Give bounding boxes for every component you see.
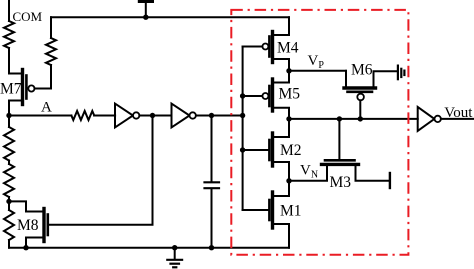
node gate bus input junction [240, 113, 245, 118]
inverter U2 [172, 104, 196, 128]
wire gate bus [242, 47, 244, 211]
wire M3 gate lead [338, 119, 340, 159]
wire M2 gate lead [243, 149, 269, 151]
transistor M7 channel [21, 70, 24, 105]
transistor M2 channel [271, 133, 274, 166]
wire Vout [441, 118, 474, 120]
wire M4 gate lead [243, 46, 263, 48]
node M8 drain junction [6, 199, 11, 204]
wire M7 gate to R2 [35, 65, 52, 89]
wire inverter U1 out to inverter U2 [139, 115, 171, 117]
wire M7 drain lead [9, 48, 23, 74]
svg-text:A: A [41, 100, 52, 116]
node ground junction [172, 245, 177, 250]
node M8 source junction [23, 245, 28, 250]
transistor M4 gate bubble [262, 44, 268, 50]
wire capacitor branch top [211, 116, 213, 182]
wire M8 source lead [26, 238, 44, 248]
ground [167, 248, 182, 268]
wire M6 right lead to ground [374, 71, 397, 87]
inverter U1 [115, 104, 139, 128]
svg-text:M7: M7 [0, 81, 22, 98]
svg-text:M3: M3 [330, 174, 352, 191]
wire R3 to inverter U1 [94, 115, 115, 117]
wire node VP to M6 [289, 70, 346, 72]
wire node A to R3 [9, 115, 71, 117]
wire R2 top to rail [50, 17, 52, 38]
terminal bar (M3 bulk) [389, 173, 391, 188]
resistor (bottom left to ground rail) [4, 201, 14, 247]
red dashed analysis box [231, 10, 408, 255]
transistor M6 channel [344, 86, 376, 89]
wire M1 source to ground rail [273, 224, 290, 248]
transistor M6 gate bubble [357, 94, 364, 101]
node COM input wire [8, 0, 10, 21]
node A junction [6, 113, 11, 118]
transistor M6 gate bar [348, 91, 373, 94]
transistor M3 gate bar [325, 159, 355, 162]
svg-text:M4: M4 [277, 40, 299, 57]
wire M2 source to output line [273, 119, 290, 137]
inverter U3 (output) [418, 107, 441, 131]
transistor M4 channel [271, 32, 274, 63]
wire M7 source lead to node A [9, 101, 23, 116]
transistor M7 gate bubble [28, 85, 34, 91]
power supply symbol [138, 0, 154, 20]
svg-text:M6: M6 [351, 62, 373, 79]
wire rail to M4 source [273, 17, 290, 35]
node M6 gate junction [358, 116, 363, 121]
transistor M1 gate bar [268, 200, 271, 220]
svg-text:Vout: Vout [444, 105, 473, 121]
wire M6 left lead [345, 71, 347, 87]
node capacitor bottom junction [209, 245, 214, 250]
node junction after U2 [209, 113, 214, 118]
ground (sideways, M6 bulk) [398, 66, 405, 80]
transistor M5 gate bar [268, 86, 271, 106]
node VP [286, 68, 291, 73]
wire M4 drain to node VP [273, 59, 290, 71]
svg-text:VP: VP [308, 53, 325, 71]
wire M1 drain to node VN [273, 181, 290, 196]
svg-text:M2: M2 [280, 142, 302, 159]
transistor M3 channel [322, 163, 359, 166]
resistor (M7 gate branch) [46, 38, 56, 65]
node M5 gate junction [240, 93, 245, 98]
transistor M1 channel [271, 192, 274, 228]
wire M5 source to node VP [273, 71, 290, 83]
transistor M8 gate bar [46, 215, 49, 236]
svg-text:M5: M5 [279, 86, 301, 103]
wire branch down to M8 gate [48, 116, 153, 225]
transistor M8 channel [42, 209, 45, 242]
wire M2 drain to node VN [273, 162, 290, 181]
node M3 gate junction [337, 116, 342, 121]
wire M8 drain lead [9, 201, 44, 211]
svg-text:COM: COM [13, 9, 43, 24]
svg-text:M8: M8 [17, 217, 39, 234]
transistor M5 gate bubble [262, 93, 268, 99]
resistor (series, node A to inverter) [71, 111, 94, 120]
resistor (COM branch, top left) [4, 21, 14, 48]
wire capacitor branch bottom [211, 189, 213, 247]
capacitor C1 [205, 182, 220, 188]
wire M6 gate to output line [359, 100, 361, 119]
transistor M2 gate bar [268, 140, 271, 160]
transistor M4 gate bar [268, 37, 271, 57]
wire M5 gate lead [243, 95, 263, 97]
resistor (node A lower chain 1) [4, 116, 14, 161]
node M2 gate junction [240, 147, 245, 152]
node junction after U1 [150, 113, 155, 118]
node M5 drain output junction [286, 116, 291, 121]
transistor M7 gate bar [25, 76, 28, 99]
wire M3 left lead to node VN [289, 165, 327, 181]
wire top supply rail [51, 16, 289, 18]
resistor (node A lower chain 2) [4, 161, 14, 202]
transistor M5 channel [271, 79, 274, 111]
wire M1 gate lead [243, 209, 269, 211]
svg-text:M1: M1 [280, 203, 302, 220]
wire M5 drain to output line [273, 108, 290, 119]
wire inverter U2 out to gate bus [196, 115, 243, 117]
wire output line [289, 118, 418, 120]
svg-text:VN: VN [300, 163, 318, 181]
wire bottom ground rail [9, 247, 289, 249]
wire M3 right lead [356, 165, 389, 181]
node VN [286, 178, 291, 183]
